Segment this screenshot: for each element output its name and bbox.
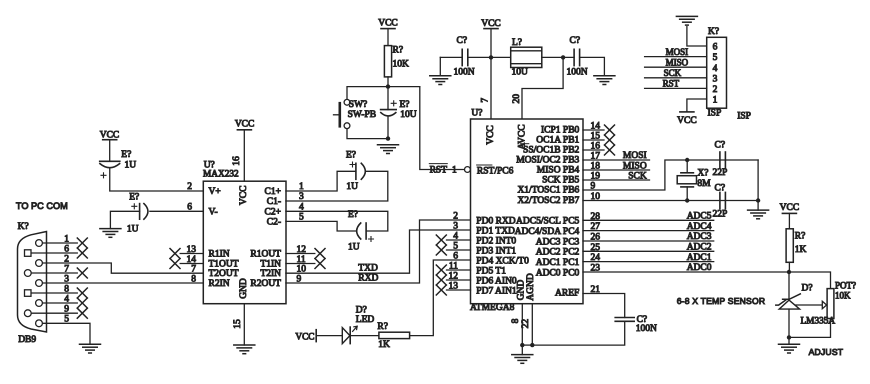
wire DB9 pin5 to ground	[42, 323, 90, 344]
wire cap to VCC node	[468, 56, 511, 58]
svg-text:ADC0 PC0: ADC0 PC0	[536, 268, 580, 278]
capacitor E? 10U (reset)	[387, 87, 389, 110]
capacitor C? 22P (top)	[719, 152, 721, 168]
svg-text:8M: 8M	[697, 179, 711, 189]
svg-text:RST/PC6: RST/PC6	[477, 166, 514, 176]
wire ATMEGA8 pin4 stub	[447, 239, 471, 241]
svg-text:PD1 TXD: PD1 TXD	[476, 226, 515, 236]
svg-text:10K: 10K	[835, 290, 851, 300]
wire C1+ to cap E?	[286, 171, 356, 191]
svg-text:SCK PB5: SCK PB5	[542, 176, 579, 186]
svg-text:100N: 100N	[454, 68, 475, 78]
wire ATMEGA8 pin16 stub	[583, 149, 604, 151]
wire ADC4	[583, 230, 714, 232]
svg-text:3: 3	[453, 222, 458, 232]
pin15 wire to ground	[243, 304, 245, 345]
wire VCC to R?	[387, 29, 389, 46]
svg-text:TXD: TXD	[358, 264, 378, 274]
svg-text:T1OUT: T1OUT	[209, 260, 239, 270]
svg-text:C2+: C2+	[265, 207, 281, 217]
junction node VCC pin7	[489, 55, 493, 59]
no-connect X DB9 pin 6	[77, 248, 87, 258]
svg-text:VCC: VCC	[235, 120, 255, 130]
wire VCC to ATMEGA8 pin7	[490, 57, 492, 119]
no-connect X MAX232 pin13	[170, 249, 180, 259]
wire ADC2	[583, 250, 714, 252]
svg-text:OC1A PB1: OC1A PB1	[536, 136, 579, 146]
svg-text:ADC4/SDA PC4: ADC4/SDA PC4	[515, 227, 580, 237]
svg-text:RXD: RXD	[358, 274, 378, 284]
MAX232 pin numbers left	[187, 182, 197, 284]
no-connect X DB9 pin 4	[77, 298, 87, 308]
no-connect X ATMEGA8 pin5	[436, 245, 446, 255]
svg-text:RST: RST	[430, 165, 448, 175]
DB9 pin 8 square	[25, 290, 32, 297]
ISP pin numbers	[713, 43, 718, 106]
wire ISP pin1 to VCC	[687, 99, 707, 112]
wire VCC to cap E?	[109, 140, 111, 162]
svg-text:ADC4: ADC4	[687, 222, 712, 232]
wire MISO (pin18)	[583, 169, 650, 171]
svg-text:T1IN: T1IN	[260, 260, 281, 270]
DB9 pin 9 circle	[24, 310, 31, 317]
svg-text:X?: X?	[697, 169, 708, 179]
wire MOSI (ISP)	[645, 56, 707, 58]
svg-text:PD7 AIN1: PD7 AIN1	[476, 286, 517, 296]
resistor R? 1K (LED)	[379, 332, 410, 338]
junction AGND node	[530, 343, 534, 347]
svg-text:4: 4	[64, 294, 69, 304]
no-connect X DB9 pin 1	[77, 238, 87, 248]
capacitor C? 100N (AREF)	[615, 317, 634, 319]
wire DB9 pin9 stub	[31, 312, 77, 314]
wire VCC to R?	[788, 213, 790, 228]
svg-text:R?: R?	[377, 322, 388, 332]
svg-text:10K: 10K	[393, 60, 410, 70]
svg-text:X1/TOSC1 PB6: X1/TOSC1 PB6	[517, 186, 579, 196]
svg-text:C?: C?	[570, 36, 581, 46]
svg-text:ADC5: ADC5	[687, 212, 712, 222]
wire cap to C2-	[286, 221, 356, 231]
wire SCK (pin19)	[583, 179, 650, 181]
diode D? LM335 temp sensor	[788, 272, 790, 299]
svg-text:GND: GND	[516, 280, 526, 301]
DB9 pin circles column A	[36, 240, 43, 247]
svg-text:LM335A: LM335A	[801, 316, 836, 326]
svg-text:U?: U?	[471, 109, 482, 119]
svg-text:VCC: VCC	[295, 332, 314, 342]
wire DB9 pin2 to MAX232 T2OUT	[42, 263, 203, 273]
svg-text:LED: LED	[356, 315, 375, 325]
svg-text:ADC5/SCL PC5: ADC5/SCL PC5	[516, 217, 580, 227]
svg-text:9: 9	[64, 305, 69, 315]
wire ADC3	[583, 240, 714, 242]
svg-text:1U: 1U	[127, 225, 139, 235]
svg-text:MOSI/OC2 PB3: MOSI/OC2 PB3	[516, 156, 579, 166]
wire RST to ATMEGA8	[420, 87, 465, 170]
svg-text:1: 1	[713, 96, 718, 106]
junction node AVCC	[561, 55, 565, 59]
junction crystal bottom	[685, 198, 689, 202]
svg-text:22P: 22P	[713, 168, 728, 178]
svg-text:ADJUST: ADJUST	[809, 347, 844, 357]
capacitor E? 1U (polarized, at V-)	[144, 204, 148, 220]
svg-text:V-: V-	[209, 207, 218, 217]
svg-text:7: 7	[191, 265, 196, 275]
svg-text:10U: 10U	[512, 68, 529, 78]
wire R? to node	[387, 77, 389, 87]
ATMEGA8 left pin numbers	[449, 212, 459, 292]
svg-text:SCK: SCK	[664, 68, 682, 78]
svg-text:L?: L?	[512, 38, 522, 48]
wire switch to ground rail	[347, 129, 388, 139]
svg-text:2: 2	[64, 254, 69, 264]
capacitor E? 1U (C1)	[355, 163, 357, 179]
ground at MAX232 pin15	[234, 345, 255, 354]
wire ADC0 to temp sensor node	[583, 271, 789, 273]
wire R? to node	[788, 262, 790, 272]
wire MAX232 pin13 stub	[180, 253, 203, 255]
no-connect X ATMEGA8 pin16	[605, 145, 615, 155]
svg-text:6: 6	[64, 244, 69, 254]
wire ATMEGA8 pin13 stub	[447, 289, 471, 291]
wire ATMEGA8 pin11 stub	[447, 269, 471, 271]
svg-text:C1-: C1-	[267, 197, 281, 207]
svg-text:VCC: VCC	[780, 203, 800, 213]
svg-text:1: 1	[64, 234, 69, 244]
svg-text:6: 6	[713, 43, 718, 53]
svg-text:V+: V+	[209, 187, 221, 197]
svg-text:ISP: ISP	[737, 112, 751, 122]
DB9 pin numbers	[64, 234, 69, 324]
wire ATMEGA8 pin5 stub	[447, 249, 471, 251]
svg-text:ADC3 PC3: ADC3 PC3	[536, 237, 580, 247]
DB9 pin 7 circle	[24, 270, 31, 277]
svg-text:1K: 1K	[795, 245, 807, 255]
svg-text:1U: 1U	[348, 242, 360, 252]
svg-text:TO PC COM: TO PC COM	[16, 201, 68, 211]
capacitor C? 100N (left)	[461, 49, 463, 65]
svg-text:6-8 X TEMP SENSOR: 6-8 X TEMP SENSOR	[677, 296, 766, 306]
wire ATMEGA8 pin6 to LED resistor	[410, 260, 471, 336]
wire ATMEGA8 pin14 stub	[583, 129, 604, 131]
ATMEGA8 left pin labels	[476, 216, 529, 296]
svg-text:5: 5	[64, 315, 69, 325]
svg-text:R2OUT: R2OUT	[250, 279, 281, 289]
wire DB9 pin3 to MAX232 R2IN	[42, 282, 203, 284]
svg-text:1U: 1U	[346, 182, 358, 192]
junction 22P ground node	[756, 198, 760, 202]
no-connect X ATMEGA8 pin14	[605, 125, 615, 135]
svg-text:ADC2 PC2: ADC2 PC2	[536, 248, 580, 258]
wire MAX232 pin12 stub	[286, 253, 315, 255]
wire caps to ground	[757, 160, 759, 210]
svg-text:ADC3: ADC3	[687, 232, 712, 242]
ground at rail right	[594, 76, 615, 85]
capacitor E? 1U (polarized, at V+)	[100, 160, 120, 162]
wire RST (ISP)	[645, 87, 707, 89]
junction GND node	[520, 343, 524, 347]
svg-text:ADC1: ADC1	[687, 253, 712, 263]
svg-text:K?: K?	[708, 27, 719, 37]
svg-text:4: 4	[713, 64, 718, 74]
svg-text:7: 7	[64, 264, 69, 274]
svg-text:E?: E?	[346, 151, 356, 161]
svg-text:VCC: VCC	[677, 116, 697, 126]
resistor R? 10K (reset pull-up)	[384, 46, 391, 77]
svg-text:ISP: ISP	[708, 109, 722, 119]
svg-text:E?: E?	[129, 193, 139, 203]
wire ATMEGA8 pin22 AGND	[531, 304, 533, 345]
wire node to ground	[521, 345, 523, 355]
svg-text:DB9: DB9	[18, 335, 36, 345]
DB9 pin 6 square	[25, 250, 32, 256]
svg-text:R?: R?	[795, 231, 806, 241]
wire node to ground	[788, 337, 790, 344]
svg-text:R1IN: R1IN	[209, 250, 230, 260]
svg-text:GND: GND	[239, 278, 249, 299]
MAX232 pin names right	[250, 187, 281, 289]
svg-text:ADC1 PC1: ADC1 PC1	[536, 258, 580, 268]
svg-text:1: 1	[452, 165, 457, 175]
svg-text:VCC: VCC	[378, 18, 398, 28]
LED D?	[342, 328, 350, 344]
svg-text:AGND: AGND	[526, 273, 536, 301]
ATMEGA8 reset bubble	[465, 167, 471, 173]
svg-text:22: 22	[521, 319, 531, 329]
svg-text:2: 2	[453, 212, 458, 222]
svg-text:VCC: VCC	[100, 130, 120, 140]
wire rail left segment	[440, 56, 462, 58]
svg-text:6: 6	[187, 202, 192, 212]
svg-text:8: 8	[64, 284, 69, 294]
wire DB9 pin7 stub	[31, 272, 77, 274]
wire ADC1	[583, 261, 714, 263]
svg-text:15: 15	[233, 319, 243, 329]
svg-text:20: 20	[512, 94, 522, 104]
svg-text:R1OUT: R1OUT	[250, 250, 281, 260]
wire DB9 pin6 stub	[31, 252, 77, 254]
junction node reset	[386, 84, 390, 88]
svg-text:2: 2	[187, 182, 192, 192]
wire DB9 pin1 stub	[42, 242, 77, 244]
wire rail left to ground	[439, 57, 441, 75]
wire ATMEGA8 pin12 stub	[447, 279, 471, 281]
wire cap to AGND node	[532, 321, 624, 345]
pin16 wire to VCC	[243, 130, 245, 181]
svg-text:PD5 T1: PD5 T1	[476, 266, 506, 276]
no-connect X ATMEGA8 pin13	[436, 285, 446, 295]
wire VCC to LED	[316, 335, 342, 337]
svg-text:ICP1 PB0: ICP1 PB0	[541, 126, 580, 136]
ATMEGA8 right pin labels PB	[516, 126, 579, 207]
svg-text:C?: C?	[715, 183, 726, 193]
wire DB9 pin8 stub	[31, 292, 77, 294]
svg-text:D?: D?	[802, 284, 813, 294]
svg-text:PD0 RXD: PD0 RXD	[476, 216, 515, 226]
svg-text:ADC2: ADC2	[687, 243, 712, 253]
no-connect X MAX232 pin11	[315, 259, 325, 269]
MAX232 pin numbers right	[297, 182, 307, 284]
wire cap to ground	[110, 211, 139, 228]
svg-text:T2OUT: T2OUT	[209, 269, 239, 279]
svg-text:8: 8	[191, 274, 196, 284]
svg-text:3: 3	[64, 274, 69, 284]
wire rail right to ground	[580, 57, 605, 75]
svg-text:MISO: MISO	[623, 161, 647, 171]
wire MAX232 pin11 stub	[286, 263, 315, 265]
svg-text:VCC: VCC	[239, 186, 249, 206]
svg-text:C?: C?	[715, 141, 726, 151]
svg-text:PD3 INT1: PD3 INT1	[476, 246, 516, 256]
no-connect X ATMEGA8 pin11	[436, 265, 446, 275]
svg-text:VCC: VCC	[481, 19, 501, 29]
svg-text:R?: R?	[393, 46, 404, 56]
svg-text:SW-PB: SW-PB	[348, 110, 377, 120]
ground at rail left	[430, 76, 451, 85]
svg-text:MISO PB4: MISO PB4	[537, 166, 580, 176]
svg-text:SS/OC1B PB2: SS/OC1B PB2	[523, 146, 579, 156]
svg-text:2: 2	[713, 85, 718, 95]
inductor L? 10U	[511, 47, 542, 67]
no-connect X ATMEGA8 pin15	[605, 135, 615, 145]
svg-text:D?: D?	[356, 305, 367, 315]
wire TXD (MAX232 T2IN to ATMEGA8 PD1)	[286, 230, 471, 273]
wire ATMEGA8 pin15 stub	[583, 139, 604, 141]
junction temp sensor node	[787, 270, 791, 274]
svg-text:SCK: SCK	[628, 172, 647, 182]
svg-text:MOSI: MOSI	[623, 151, 647, 161]
svg-text:C?: C?	[457, 36, 468, 46]
svg-text:AREF: AREF	[555, 288, 579, 298]
wire ISP ground to pin6	[687, 27, 707, 46]
no-connect X DB9 pin 8	[77, 288, 87, 298]
svg-text:ATMEGA8: ATMEGA8	[470, 303, 515, 313]
svg-text:10U: 10U	[400, 110, 417, 120]
svg-text:100N: 100N	[567, 68, 588, 78]
junction node reset ground	[386, 136, 390, 140]
no-connect X ATMEGA8 pin4	[436, 235, 446, 245]
wire ATMEGA8 pin8 GND	[521, 304, 523, 345]
junction sensor ground node	[787, 335, 791, 339]
svg-text:16: 16	[232, 156, 242, 166]
ground at temp sensor	[779, 344, 800, 353]
connector K? ISP body	[707, 37, 727, 108]
wire MAX232 pin14 stub	[180, 263, 203, 265]
svg-text:MISO: MISO	[666, 57, 689, 67]
svg-text:3: 3	[713, 74, 718, 84]
svg-text:8: 8	[511, 318, 521, 323]
svg-text:ADC0: ADC0	[687, 263, 712, 273]
no-connect X ATMEGA8 pin12	[436, 275, 446, 285]
svg-text:C1+: C1+	[265, 187, 281, 197]
svg-text:E?: E?	[400, 100, 410, 110]
svg-text:E?: E?	[121, 150, 131, 160]
svg-text:5: 5	[713, 53, 718, 63]
ground at crystal	[748, 210, 769, 219]
svg-text:E?: E?	[348, 210, 358, 220]
svg-text:X2/TOSC2 PB7: X2/TOSC2 PB7	[517, 196, 579, 206]
ground at ATMEGA8 GND	[512, 355, 533, 364]
svg-text:7: 7	[480, 98, 490, 103]
wire pin10 to crystal bottom	[583, 200, 758, 202]
IC U? ATMEGA8 body	[471, 119, 584, 304]
no-connect X DB9 pin 7	[77, 268, 87, 278]
svg-text:RST: RST	[663, 79, 680, 89]
power VCC (ISP, inverted)	[680, 111, 694, 113]
svg-text:VCC: VCC	[486, 125, 496, 145]
ground at ISP pin6 (inverted)	[676, 16, 697, 25]
svg-text:1K: 1K	[378, 340, 390, 350]
svg-text:POT?: POT?	[835, 281, 856, 291]
wire cap to MAX232 V+	[110, 168, 204, 191]
wire node to POT top	[789, 272, 831, 289]
wire cap to C1-	[286, 171, 388, 201]
no-connect X MAX232 pin12	[315, 249, 325, 259]
wire ADC5	[583, 219, 714, 221]
crystal X? 8M	[686, 160, 688, 173]
no-connect X DB9 pin 9	[77, 308, 87, 318]
ground at V- cap	[100, 229, 121, 238]
svg-text:SW?: SW?	[349, 100, 367, 110]
switch SW? SW-PB	[344, 99, 350, 105]
wire RXD (MAX232 R2OUT to ATMEGA8 PD0)	[286, 220, 471, 283]
svg-text:PD4 XCK/T0: PD4 XCK/T0	[476, 256, 529, 266]
wire SCK (ISP)	[645, 77, 707, 79]
wire node to switch	[347, 87, 388, 100]
wire POT bottom to ground node	[789, 319, 831, 338]
wire AREF to cap	[583, 294, 625, 318]
wire MOSI (pin17)	[583, 159, 650, 161]
svg-text:MAX232: MAX232	[203, 170, 239, 180]
IC U? MAX232 body	[203, 181, 286, 304]
ATMEGA8 right pin labels ADC	[515, 217, 580, 279]
svg-text:R2IN: R2IN	[209, 279, 230, 289]
wire MAX232 V- to cap E?	[150, 210, 203, 212]
wire AVCC to ATMEGA8 pin20	[522, 57, 563, 119]
resistor R? 1K (sensor)	[786, 229, 793, 262]
wire C2+ from cap	[286, 211, 388, 231]
wire DB9 pin4 stub	[42, 302, 77, 304]
capacitor C? 22P (bottom)	[719, 192, 721, 208]
wire rail right of L	[542, 56, 574, 58]
wire MISO (ISP)	[645, 66, 707, 68]
svg-text:C2-: C2-	[267, 217, 281, 227]
svg-text:T2IN: T2IN	[260, 269, 281, 279]
capacitor E? 1U (C2)	[365, 223, 367, 239]
svg-text:PD6 AIN0: PD6 AIN0	[476, 276, 517, 286]
svg-text:100N: 100N	[636, 324, 657, 334]
svg-text:K?: K?	[18, 222, 29, 232]
svg-text:MOSI: MOSI	[666, 47, 689, 57]
capacitor C? 100N (right)	[573, 49, 575, 65]
wire pin9 to crystal top	[583, 160, 758, 190]
svg-text:22P: 22P	[713, 209, 728, 219]
ground at reset circuit	[378, 145, 399, 154]
ATMEGA8 right pin numbers	[591, 122, 601, 296]
ground at DB9 pin5	[80, 344, 101, 353]
POT wiper arrow	[793, 301, 827, 308]
wire LED to R?	[350, 335, 379, 337]
connector K? DB9 outline	[18, 232, 47, 333]
wire VCC to rail	[490, 29, 492, 58]
no-connect X MAX232 pin14	[170, 259, 180, 269]
junction crystal top	[685, 158, 689, 162]
svg-text:PD2 INT0: PD2 INT0	[476, 236, 516, 246]
svg-text:1U: 1U	[125, 161, 137, 171]
potentiometer POT? 10K	[827, 289, 834, 319]
MAX232 pin names left	[209, 187, 239, 289]
